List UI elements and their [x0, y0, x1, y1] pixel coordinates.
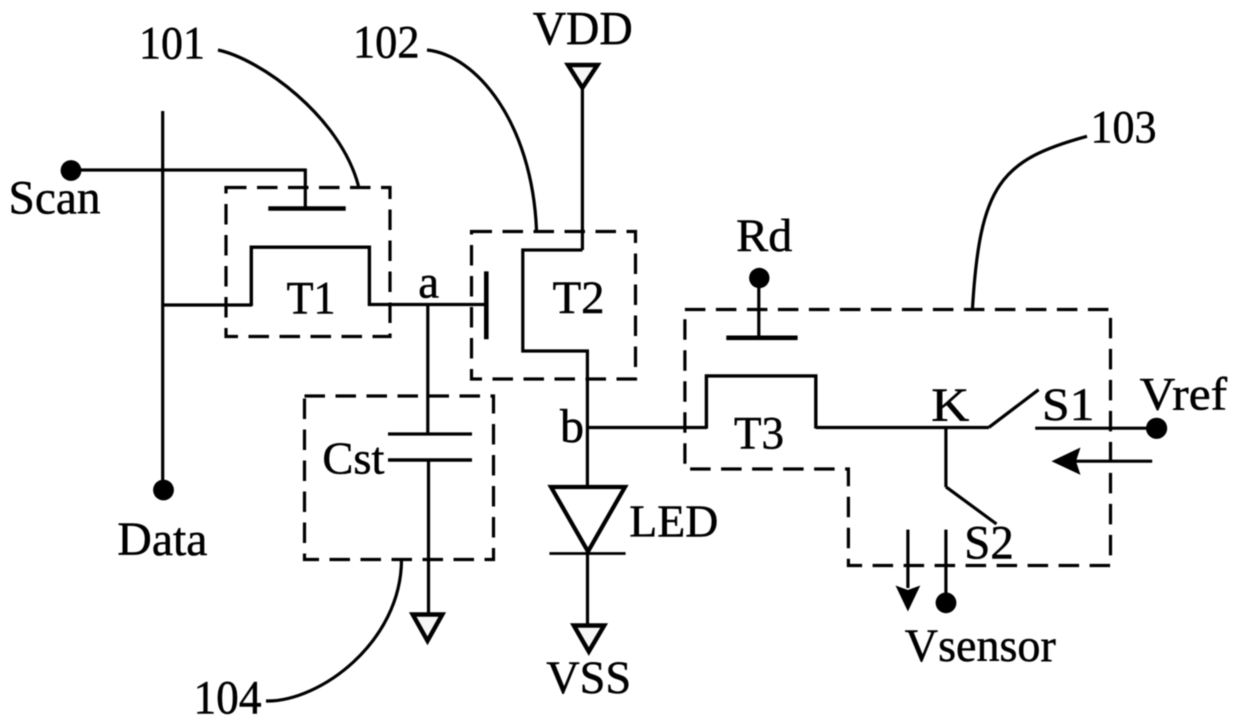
wire Scan horizontal: [79, 168, 305, 171]
wire node K vertical: [944, 428, 947, 488]
capacitor Cst top plate: [388, 432, 472, 435]
transistor T3 gate bar: [726, 335, 797, 340]
wire node b to T3 source: [587, 426, 707, 429]
node a label: [418, 257, 439, 309]
label S2: [964, 517, 1014, 570]
dashed box 102 around T2: [472, 232, 636, 380]
svg-text:S1: S1: [1042, 379, 1095, 431]
leader curve from 101 to T1 box: [218, 50, 359, 186]
wire Cst to ground: [427, 460, 430, 613]
svg-text:T1: T1: [287, 273, 336, 325]
svg-text:Data: Data: [117, 513, 207, 566]
label Vref: [1140, 369, 1228, 421]
svg-text:S2: S2: [964, 517, 1014, 570]
svg-text:Vref: Vref: [1140, 369, 1228, 421]
wire VDD to T2: [581, 89, 584, 250]
transistor T1 channel: [251, 247, 369, 306]
transistor T2 channel: [523, 250, 588, 487]
arrow to Vsensor (readout direction): [896, 530, 921, 612]
svg-text:101: 101: [139, 17, 205, 69]
node Vref terminal dot: [1146, 418, 1167, 439]
node Rd terminal dot: [749, 268, 769, 288]
dashed box 103 around T3 and switches: [685, 310, 1111, 566]
capacitor Cst bottom plate: [388, 458, 472, 461]
dashed box 101 around T1: [226, 188, 390, 337]
wire S1 fixed contact to Vref: [1035, 427, 1147, 430]
switch S2 arm: [946, 487, 997, 524]
label Scan: [9, 171, 101, 224]
leader curve from 103 to box 103: [973, 136, 1088, 308]
dashed box 104 around Cst: [305, 396, 494, 560]
arrow into S1 (Vref current direction): [1052, 448, 1153, 475]
svg-text:b: b: [560, 400, 584, 453]
label 103: [1091, 102, 1157, 154]
svg-text:Vsensor: Vsensor: [905, 620, 1056, 672]
label T1: [287, 273, 336, 325]
node Data terminal dot: [153, 480, 174, 501]
svg-text:VSS: VSS: [546, 652, 631, 704]
transistor T1 gate bar: [268, 206, 345, 211]
wire T1 gate lead vertical: [304, 169, 307, 208]
switch S1 arm: [989, 390, 1039, 428]
leader curve from 104 to Cst box: [266, 560, 402, 701]
wire Vsensor lead: [944, 530, 947, 593]
svg-text:VDD: VDD: [533, 3, 633, 56]
label S1: [1042, 379, 1095, 431]
wire T1 source to Data line: [162, 303, 252, 306]
label 101: [139, 17, 205, 69]
label T2: [553, 273, 605, 324]
svg-text:LED: LED: [629, 497, 718, 547]
LED anode triangle: [551, 487, 625, 552]
svg-text:T2: T2: [553, 273, 605, 324]
node K label: [931, 379, 969, 432]
wire Rd gate lead: [757, 288, 760, 336]
label 102: [353, 17, 420, 69]
label VDD: [533, 3, 633, 56]
label Data: [117, 513, 207, 566]
label Cst: [322, 432, 384, 483]
svg-text:102: 102: [353, 17, 420, 69]
transistor T3 channel: [706, 376, 815, 429]
label LED: [629, 497, 718, 547]
label T3: [734, 408, 784, 460]
wire T1 drain to node a and T2 gate: [369, 303, 487, 306]
svg-text:a: a: [418, 257, 439, 309]
wire T3 drain to node K: [816, 426, 989, 429]
leader curve from 102 to T2 box: [427, 50, 537, 230]
power symbol VSS triangle: [574, 626, 604, 652]
wire Data vertical line: [161, 111, 164, 481]
LED cathode bar: [549, 552, 625, 555]
ground symbol triangle under Cst: [413, 615, 443, 641]
node Vsensor terminal dot: [936, 592, 957, 613]
label Rd: [736, 210, 792, 262]
transistor T2 gate bar: [484, 271, 489, 339]
power symbol VDD triangle: [568, 65, 598, 88]
svg-text:104: 104: [194, 671, 262, 724]
svg-text:103: 103: [1091, 102, 1157, 154]
label Vsensor: [905, 620, 1056, 672]
label VSS: [546, 652, 631, 704]
node Scan terminal dot: [61, 160, 82, 181]
svg-text:Rd: Rd: [736, 210, 792, 262]
svg-text:Cst: Cst: [322, 432, 384, 483]
label 104: [194, 671, 262, 724]
wire node a vertical to Cst: [426, 305, 429, 434]
svg-text:T3: T3: [734, 408, 784, 460]
svg-text:K: K: [931, 379, 969, 432]
svg-text:Scan: Scan: [9, 171, 101, 224]
wire LED to VSS: [586, 554, 589, 625]
node b label: [560, 400, 584, 453]
